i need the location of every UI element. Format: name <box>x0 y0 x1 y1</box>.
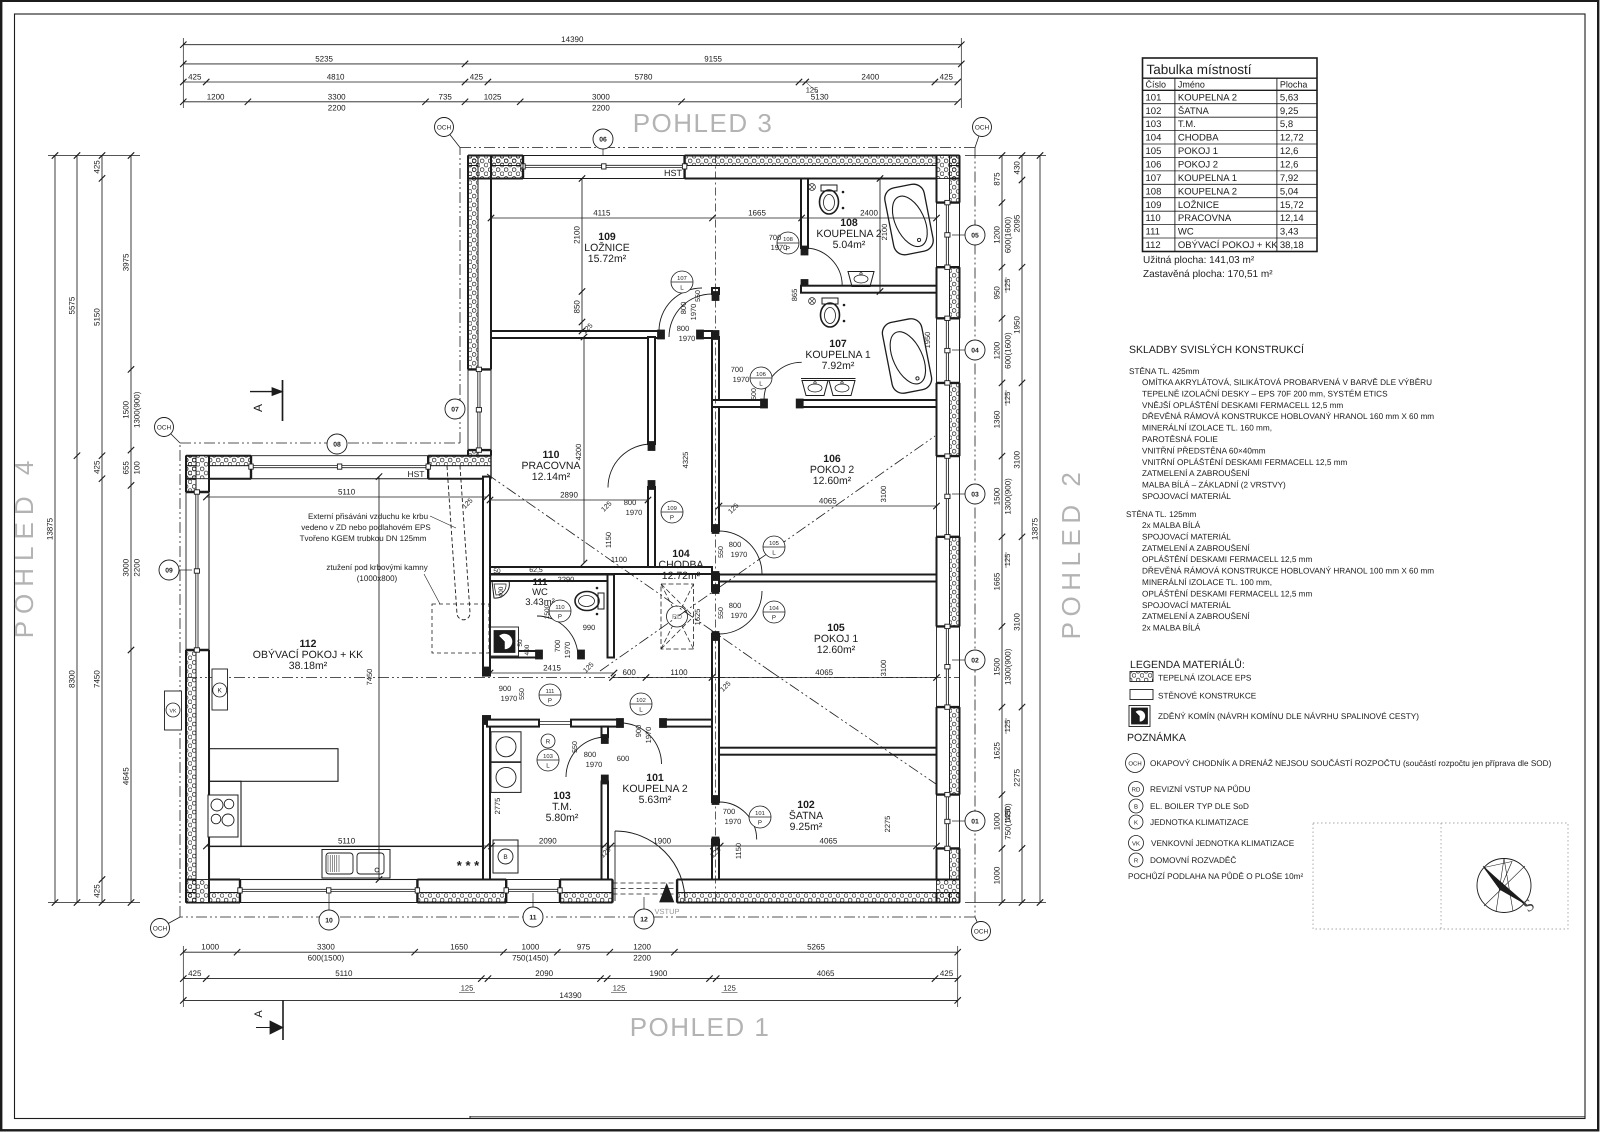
svg-text:700: 700 <box>769 233 782 242</box>
svg-text:105: 105 <box>769 540 779 547</box>
WC 111 bottom wall <box>490 651 537 658</box>
svg-text:100: 100 <box>133 461 142 475</box>
door arc 106 <box>719 531 762 574</box>
svg-text:1300(900): 1300(900) <box>1004 478 1013 515</box>
svg-text:4810: 4810 <box>327 73 345 82</box>
svg-text:1500: 1500 <box>993 487 1002 505</box>
svg-text:1000: 1000 <box>522 943 540 952</box>
door id 103 <box>537 749 559 771</box>
svg-text:425: 425 <box>940 969 954 978</box>
corner washbasin 111 <box>492 581 509 598</box>
svg-text:B: B <box>503 854 507 861</box>
svg-text:12.14m²: 12.14m² <box>532 471 571 483</box>
svg-text:4200: 4200 <box>574 444 583 461</box>
svg-text:109: 109 <box>667 505 677 512</box>
svg-text:5,04: 5,04 <box>1280 186 1299 197</box>
dim interior 110 vertical x584 <box>583 337 585 563</box>
svg-text:850: 850 <box>573 300 582 314</box>
wall 103/101 top (y719.6) <box>487 720 539 727</box>
svg-text:13875: 13875 <box>46 517 55 540</box>
svg-text:DŘEVĚNÁ RÁMOVÁ KONSTRUKCE H: DŘEVĚNÁ RÁMOVÁ KONSTRUKCE HOBLOVANÝ HRAN… <box>1142 566 1434 576</box>
svg-text:2200: 2200 <box>328 103 346 112</box>
wall 108/107 horizontal (y285.7) <box>801 286 937 293</box>
svg-text:105: 105 <box>1146 146 1162 157</box>
svg-text:11: 11 <box>529 915 536 922</box>
svg-text:15.72m²: 15.72m² <box>588 253 627 265</box>
door id 102hall <box>630 693 652 715</box>
svg-text:OCH: OCH <box>153 925 168 932</box>
wall 110 right (x648) <box>648 337 655 444</box>
note OCH <box>1126 754 1145 773</box>
dim interior top y218 <box>491 217 937 219</box>
svg-text:SPOJOVACÍ MATERIÁL: SPOJOVACÍ MATERIÁL <box>1142 491 1231 501</box>
wall corner bottom-right <box>937 880 960 903</box>
svg-text:Externí přisáváni vzduchu ke k: Externí přisáváni vzduchu ke krbu <box>308 512 428 521</box>
window HST top (3000) <box>523 155 685 157</box>
kitchen sink unit <box>322 850 390 879</box>
axis bubble 07 <box>445 399 465 419</box>
wall corner top-right <box>937 156 960 179</box>
svg-text:550: 550 <box>572 741 579 753</box>
chimney in plan <box>491 627 519 656</box>
svg-text:L: L <box>546 763 550 770</box>
svg-text:1100: 1100 <box>670 668 688 677</box>
svg-text:2275: 2275 <box>1013 768 1022 786</box>
svg-text:5,8: 5,8 <box>1280 119 1293 130</box>
svg-text:990: 990 <box>583 623 596 632</box>
svg-text:1200: 1200 <box>993 225 1002 243</box>
svg-text:OCH: OCH <box>974 928 989 935</box>
svg-text:5.63m²: 5.63m² <box>639 794 672 806</box>
svg-text:2x MALBA BÍLÁ: 2x MALBA BÍLÁ <box>1142 623 1201 633</box>
svg-text:VSTUP: VSTUP <box>654 907 679 916</box>
note B <box>1129 799 1143 813</box>
svg-text:VNĚJŠÍ OPLÁŠTĚNÍ DESKAMI FE: VNĚJŠÍ OPLÁŠTĚNÍ DESKAMI FERMACELL 12,5 … <box>1142 400 1343 410</box>
svg-text:102: 102 <box>1146 106 1162 117</box>
svg-text:900: 900 <box>634 725 643 738</box>
svg-text:08: 08 <box>333 442 341 449</box>
svg-text:HST: HST <box>408 469 425 479</box>
axis 09 leader <box>178 569 192 571</box>
svg-text:RD: RD <box>672 614 682 621</box>
svg-text:4065: 4065 <box>815 668 833 677</box>
wall 107/106 horizontal (y400) <box>712 400 762 407</box>
svg-text:5265: 5265 <box>807 943 825 952</box>
wall corner wing bottom-left <box>186 880 209 903</box>
svg-text:Plocha: Plocha <box>1280 80 1308 90</box>
section mark A top <box>282 380 284 421</box>
svg-text:POKOJ 1: POKOJ 1 <box>1178 146 1218 157</box>
svg-text:800: 800 <box>584 750 597 759</box>
svg-text:3975: 3975 <box>122 253 131 271</box>
svg-text:800: 800 <box>679 302 688 315</box>
dryer 103 <box>491 762 521 792</box>
svg-text:101: 101 <box>755 810 765 817</box>
svg-text:K: K <box>1134 820 1138 827</box>
svg-text:38,18: 38,18 <box>1280 240 1304 251</box>
svg-text:600(1600): 600(1600) <box>1004 216 1013 253</box>
wall 109 bottom (y331) <box>491 331 659 338</box>
dim interior 109 vertical <box>581 179 583 332</box>
svg-text:5575: 5575 <box>68 296 77 314</box>
svg-text:700: 700 <box>731 365 744 374</box>
svg-text:OPLÁŠTĚNÍ DESKAMI FERMACELL: OPLÁŠTĚNÍ DESKAMI FERMACELL 12,5 mm <box>1142 588 1312 598</box>
svg-text:104: 104 <box>769 605 779 612</box>
svg-text:1970: 1970 <box>644 727 653 744</box>
svg-text:9155: 9155 <box>704 54 722 63</box>
svg-text:ztužení pod krbovými kamny: ztužení pod krbovými kamny <box>326 563 427 572</box>
svg-text:12,14: 12,14 <box>1280 213 1304 224</box>
door id 111 <box>539 684 561 706</box>
svg-text:Číslo: Číslo <box>1146 80 1167 90</box>
svg-text:550: 550 <box>718 546 725 558</box>
wall 109/108 vertical (x801) <box>801 179 808 249</box>
exterior wall top (block A) <box>468 156 523 166</box>
kitchen counter left + peninsula <box>210 749 339 782</box>
table Tabulka mistnosti <box>1143 58 1318 252</box>
svg-text:14390: 14390 <box>559 991 582 1000</box>
axis bubble 03 <box>965 484 985 504</box>
dim chain right col1 <box>1001 156 1003 903</box>
svg-text:106: 106 <box>756 371 766 378</box>
axis dash-dot corridor x712 <box>715 156 717 903</box>
svg-text:03: 03 <box>971 492 979 499</box>
svg-text:10: 10 <box>325 918 333 925</box>
svg-text:P: P <box>558 614 562 621</box>
svg-text:T.M.: T.M. <box>1178 119 1196 130</box>
svg-text:5110: 5110 <box>338 488 356 497</box>
svg-text:STĚNOVÉ KONSTRUKCE: STĚNOVÉ KONSTRUKCE <box>1158 691 1257 701</box>
axis bubble 12 <box>634 909 654 929</box>
svg-text:R: R <box>1134 858 1139 865</box>
svg-text:ZATMELENÍ A ZABROUŠENÍ: ZATMELENÍ A ZABROUŠENÍ <box>1142 611 1250 621</box>
svg-text:5235: 5235 <box>315 54 333 63</box>
legend chimney symbol <box>1129 706 1150 727</box>
svg-text:1665: 1665 <box>748 209 766 218</box>
svg-text:5110: 5110 <box>338 837 356 846</box>
dim chain top row2 <box>183 63 961 65</box>
svg-text:K: K <box>218 688 223 695</box>
dim chain left col4 <box>130 156 132 903</box>
svg-text:Zastavěná plocha: 170,51 m²: Zastavěná plocha: 170,51 m² <box>1143 269 1273 280</box>
svg-text:DŘEVĚNÁ RÁMOVÁ KONSTRUKCE H: DŘEVĚNÁ RÁMOVÁ KONSTRUKCE HOBLOVANÝ HRAN… <box>1142 411 1434 421</box>
svg-text:MALBA BÍLÁ – ZÁKLADNÍ (2: MALBA BÍLÁ – ZÁKLADNÍ (2 VRSTVY) <box>1142 480 1286 490</box>
svg-text:POHLED 3: POHLED 3 <box>633 108 774 138</box>
dim chain bottom row3 <box>183 999 957 1001</box>
svg-text:108: 108 <box>1146 186 1162 197</box>
OCH perimeter dash-dot line <box>460 147 975 149</box>
svg-text:L: L <box>680 285 684 292</box>
roof line diagonal b <box>600 436 935 671</box>
svg-text:875: 875 <box>993 172 1002 186</box>
svg-text:2095: 2095 <box>1013 214 1022 232</box>
svg-text:655: 655 <box>122 461 131 475</box>
exterior wall right <box>950 156 960 203</box>
window HST wing (3300) <box>251 455 428 457</box>
door arc 102 <box>719 802 757 840</box>
svg-text:125: 125 <box>1003 554 1012 567</box>
svg-text:POHLED 4: POHLED 4 <box>9 454 39 639</box>
svg-text:103: 103 <box>1146 119 1162 130</box>
svg-text:7450: 7450 <box>93 670 102 688</box>
svg-text:425: 425 <box>188 73 202 82</box>
door arc 105 <box>719 591 762 634</box>
svg-text:3300: 3300 <box>317 943 335 952</box>
svg-text:2400: 2400 <box>860 209 878 218</box>
symbol R rozvadec <box>541 734 555 748</box>
svg-text:430: 430 <box>1013 161 1022 175</box>
svg-text:OCH: OCH <box>975 124 990 131</box>
svg-text:TEPELNĚ IZOLAČNÍ DESKY – E: TEPELNĚ IZOLAČNÍ DESKY – EPS 70F 200 mm,… <box>1142 388 1388 398</box>
svg-text:1970: 1970 <box>586 760 603 769</box>
svg-text:12.72m²: 12.72m² <box>662 570 701 582</box>
svg-text:400: 400 <box>524 644 531 655</box>
svg-text:600: 600 <box>623 668 637 677</box>
svg-text:POCHŮZÍ PODLAHA NA PŮDĚ O: POCHŮZÍ PODLAHA NA PŮDĚ O PLOŠE 10m² <box>1128 871 1303 881</box>
door id 106 <box>750 367 772 389</box>
svg-text:JEDNOTKA KLIMATIZACE: JEDNOTKA KLIMATIZACE <box>1150 818 1249 827</box>
svg-text:OCH: OCH <box>1128 761 1141 768</box>
exterior wall left of block A <box>468 156 478 370</box>
svg-text:3,43: 3,43 <box>1280 227 1299 238</box>
svg-text:800: 800 <box>677 324 690 333</box>
svg-text:L: L <box>772 550 776 557</box>
svg-text:5.80m²: 5.80m² <box>546 812 579 824</box>
axis bubble 11 <box>523 907 543 927</box>
svg-text:735: 735 <box>439 92 453 101</box>
svg-text:8300: 8300 <box>68 670 77 688</box>
dim chain right col3 <box>1039 156 1041 903</box>
svg-text:125: 125 <box>1003 392 1012 405</box>
door arc 110 <box>608 444 652 488</box>
axis bubble 05 <box>965 225 985 245</box>
stove hob <box>208 795 238 837</box>
svg-text:2890: 2890 <box>560 491 578 500</box>
svg-text:14390: 14390 <box>561 35 584 44</box>
axis bubble 10 <box>319 910 339 930</box>
svg-text:1970: 1970 <box>689 304 698 321</box>
svg-text:425: 425 <box>470 73 484 82</box>
boiler B <box>493 840 518 873</box>
washer 103 <box>491 732 521 762</box>
svg-text:125: 125 <box>1003 279 1012 292</box>
svg-text:REVIZNÍ VSTUP NA PŮDU: REVIZNÍ VSTUP NA PŮDU <box>1150 784 1250 794</box>
OCH bubble <box>975 127 982 148</box>
svg-text:12,72: 12,72 <box>1280 133 1304 144</box>
svg-text:5780: 5780 <box>635 73 653 82</box>
wall 105/102 horizontal (y747.7) <box>719 748 937 755</box>
svg-text:3000: 3000 <box>592 92 610 101</box>
svg-text:07: 07 <box>451 407 459 414</box>
note R <box>1129 853 1143 867</box>
roof line diagonal a <box>487 474 770 671</box>
svg-text:STĚNA TL. 125mm: STĚNA TL. 125mm <box>1126 509 1197 519</box>
svg-text:125: 125 <box>1003 809 1012 822</box>
svg-text:9.25m²: 9.25m² <box>790 821 823 833</box>
svg-text:3100: 3100 <box>1013 613 1022 631</box>
dim chain left col1 13875 <box>54 156 56 903</box>
svg-text:104: 104 <box>1146 133 1162 144</box>
svg-text:KOUPELNA 2: KOUPELNA 2 <box>1178 92 1237 103</box>
svg-text:109: 109 <box>1146 200 1162 211</box>
svg-text:WC: WC <box>1178 227 1194 238</box>
svg-text:3100: 3100 <box>879 660 888 677</box>
wall corner top-left block A <box>468 156 523 179</box>
svg-text:LEGENDA MATERIÁLŮ:: LEGENDA MATERIÁLŮ: <box>1130 658 1245 671</box>
fireplace air duct dashed <box>447 466 470 620</box>
svg-text:4065: 4065 <box>820 837 838 846</box>
svg-text:P: P <box>670 515 674 522</box>
svg-text:OCH: OCH <box>157 424 172 431</box>
svg-text:VNITŘNÍ OPLÁŠTĚNÍ DESKAMI F: VNITŘNÍ OPLÁŠTĚNÍ DESKAMI FERMACELL 12,5… <box>1142 457 1348 467</box>
svg-text:125: 125 <box>723 984 736 993</box>
svg-text:1970: 1970 <box>771 243 788 252</box>
exterior wall top of wing <box>186 456 251 466</box>
svg-text:1500: 1500 <box>122 400 131 418</box>
title block dotted outline <box>1313 823 1568 929</box>
door arc 107 <box>764 362 802 400</box>
svg-text:VNITŘNÍ PŘEDSTĚNA 60×40mm: VNITŘNÍ PŘEDSTĚNA 60×40mm <box>1142 445 1266 455</box>
axis bubble 02 <box>965 650 985 670</box>
axis stub lines <box>328 893 330 910</box>
svg-text:1360: 1360 <box>993 410 1002 428</box>
svg-text:4645: 4645 <box>122 767 131 785</box>
svg-text:R: R <box>546 739 551 746</box>
dim interior 102 y832 <box>206 845 936 847</box>
svg-text:A: A <box>253 1010 265 1018</box>
svg-text:1970: 1970 <box>725 817 742 826</box>
wall 103/101 vertical (x601.5) <box>602 727 609 737</box>
svg-text:1970: 1970 <box>679 334 696 343</box>
note RD <box>1129 782 1144 797</box>
windows right wall <box>936 203 938 268</box>
svg-text:VENKOVNÍ JEDNOTKA KLIMATIZAC: VENKOVNÍ JEDNOTKA KLIMATIZACE <box>1151 838 1295 848</box>
svg-text:5130: 5130 <box>811 92 829 101</box>
svg-text:POKOJ 2: POKOJ 2 <box>1178 160 1218 171</box>
svg-text:50: 50 <box>493 568 501 575</box>
svg-text:2775: 2775 <box>493 798 502 815</box>
svg-text:125: 125 <box>613 984 626 993</box>
svg-text:7.92m²: 7.92m² <box>822 360 855 372</box>
svg-text:13875: 13875 <box>1031 517 1040 540</box>
door id 101 <box>749 806 771 828</box>
svg-text:* * *: * * * <box>457 858 480 873</box>
svg-text:1025: 1025 <box>484 92 502 101</box>
svg-text:L: L <box>759 381 763 388</box>
exterior wall left of wing <box>186 456 196 492</box>
windows bottom wall <box>240 879 417 881</box>
svg-text:2200: 2200 <box>133 558 142 576</box>
svg-text:VK: VK <box>1132 841 1140 848</box>
svg-text:01: 01 <box>971 819 979 826</box>
dim chain top row4 <box>183 101 957 103</box>
svg-text:600(1500): 600(1500) <box>308 954 345 963</box>
svg-text:15,72: 15,72 <box>1280 200 1304 211</box>
roof ridge horizontal <box>186 677 960 679</box>
svg-text:2090: 2090 <box>535 969 553 978</box>
WC 111 top wall <box>490 575 614 582</box>
svg-text:107: 107 <box>1146 173 1162 184</box>
legend EPS symbol <box>1130 672 1153 682</box>
svg-text:3100: 3100 <box>1013 450 1022 468</box>
fireplace foundation dashed <box>432 604 489 653</box>
svg-text:2275: 2275 <box>883 816 892 833</box>
svg-text:1150: 1150 <box>734 843 743 859</box>
svg-text:A: A <box>251 404 265 412</box>
dim interior 106 y500 <box>719 505 937 507</box>
svg-text:SPOJOVACÍ MATERIÁL: SPOJOVACÍ MATERIÁL <box>1142 531 1231 541</box>
svg-text:110: 110 <box>555 604 564 611</box>
svg-text:EL. BOILER TYP DLE SoD: EL. BOILER TYP DLE SoD <box>1150 802 1249 811</box>
svg-text:108: 108 <box>783 236 793 243</box>
axis bubble 08 <box>327 434 347 454</box>
svg-text:1200: 1200 <box>633 943 651 952</box>
svg-text:06: 06 <box>599 137 607 144</box>
svg-text:1970: 1970 <box>733 375 750 384</box>
svg-text:1200: 1200 <box>207 92 225 101</box>
svg-text:2100: 2100 <box>573 226 582 244</box>
svg-text:425: 425 <box>940 73 954 82</box>
svg-text:425: 425 <box>93 460 102 474</box>
vent symbol 107 <box>809 298 816 305</box>
svg-text:1100: 1100 <box>611 555 627 564</box>
svg-text:TEPELNÁ IZOLACE EPS: TEPELNÁ IZOLACE EPS <box>1158 673 1252 683</box>
vent symbol 108 <box>809 184 816 191</box>
svg-text:P: P <box>758 820 762 827</box>
svg-text:SKLADBY SVISLÝCH KONSTRUKCÍ: SKLADBY SVISLÝCH KONSTRUKCÍ <box>1129 343 1304 356</box>
svg-text:POHLED 1: POHLED 1 <box>630 1012 771 1042</box>
dim interior 108 vertical x880 <box>879 179 881 292</box>
svg-text:1970: 1970 <box>731 550 748 559</box>
svg-text:700: 700 <box>553 640 562 653</box>
dim chain left col2 <box>76 156 78 903</box>
svg-text:SPOJOVACÍ MATERIÁL: SPOJOVACÍ MATERIÁL <box>1142 600 1231 610</box>
door id 109 <box>661 501 683 523</box>
svg-text:PRACOVNA: PRACOVNA <box>1178 213 1232 224</box>
svg-text:HST: HST <box>664 168 683 178</box>
dim interior living vertical x379 <box>378 477 380 880</box>
svg-text:12: 12 <box>640 917 648 924</box>
RD inspection hatch box <box>661 584 694 649</box>
wall 112/110 vertical (x483) <box>483 477 490 676</box>
svg-text:CHODBA: CHODBA <box>1178 133 1219 144</box>
svg-text:38.18m²: 38.18m² <box>289 660 328 672</box>
svg-text:PAROTĚSNÁ FOLIE: PAROTĚSNÁ FOLIE <box>1142 434 1218 444</box>
svg-text:(1000x800): (1000x800) <box>357 574 398 583</box>
svg-text:550: 550 <box>519 688 526 700</box>
svg-text:4065: 4065 <box>819 497 837 506</box>
svg-text:4065: 4065 <box>817 969 835 978</box>
dim interior 105 y677 <box>613 677 937 679</box>
svg-text:Tabulka místností: Tabulka místností <box>1147 62 1252 77</box>
svg-text:1650: 1650 <box>450 943 468 952</box>
axis bubble 04 <box>965 340 985 360</box>
dim interior living top y497 <box>206 496 486 498</box>
dim interior 2890 y500 <box>490 499 648 501</box>
svg-text:106: 106 <box>1146 160 1162 171</box>
svg-text:3100: 3100 <box>879 486 888 503</box>
svg-text:1300(900): 1300(900) <box>1004 648 1013 685</box>
svg-text:RD: RD <box>1132 787 1141 794</box>
svg-text:Jméno: Jméno <box>1178 80 1205 90</box>
svg-text:vedeno v ZD nebo podlahovém EP: vedeno v ZD nebo podlahovém EPS <box>301 523 430 532</box>
svg-text:1970: 1970 <box>731 611 748 620</box>
svg-text:900: 900 <box>499 684 512 693</box>
entrance opening threshold <box>613 882 678 884</box>
toilet 107 <box>821 298 840 327</box>
svg-text:OPLÁŠTĚNÍ DESKAMI FERMACELL: OPLÁŠTĚNÍ DESKAMI FERMACELL 12,5 mm <box>1142 554 1312 564</box>
svg-text:1500: 1500 <box>544 604 551 619</box>
